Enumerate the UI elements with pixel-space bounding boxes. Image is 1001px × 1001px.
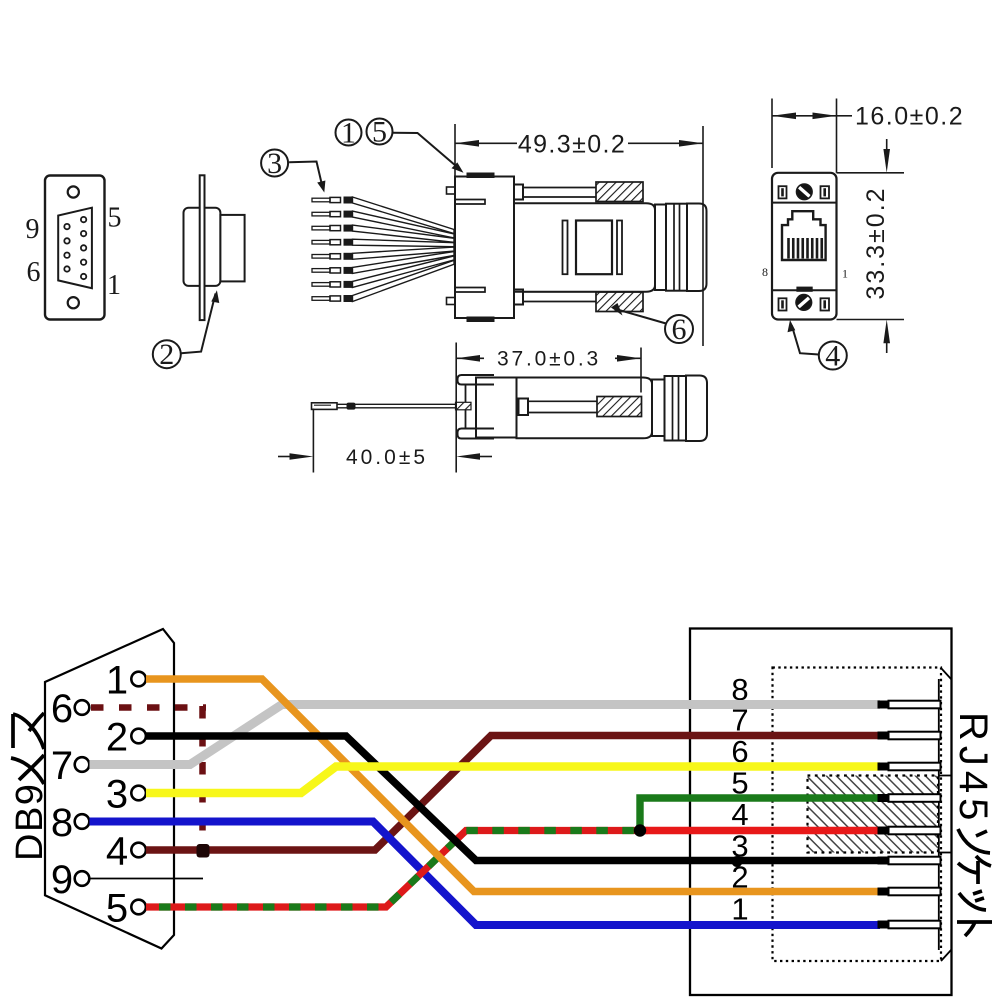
RJ45 contact row 6 (878, 763, 941, 771)
svg-text:49.3±0.2: 49.3±0.2 (518, 131, 626, 159)
shell black bar bottom (467, 317, 495, 323)
wire DB9-3 to RJ45-6 yellow (146, 767, 880, 794)
DB9 side view shell (184, 208, 221, 286)
strain relief ridge lines lower (673, 376, 679, 440)
svg-text:2: 2 (106, 716, 128, 760)
svg-text:9: 9 (26, 214, 40, 245)
dim 37.0 (456, 343, 641, 473)
svg-text:5: 5 (372, 116, 387, 149)
shell slot top (455, 200, 485, 205)
crimp pin row 8 (312, 260, 454, 302)
lower section view (458, 375, 708, 441)
balloon 2 (153, 294, 216, 369)
DB9 pin numbers (51, 659, 128, 931)
pin6 jumper dashed wire (91, 706, 206, 845)
RJ45 right inner vertical (938, 679, 940, 950)
wire DB9-5 striped green overlay (146, 831, 640, 908)
balloon 4 (819, 342, 847, 370)
wire green branch to RJ45-5 (640, 798, 884, 834)
balloon 5 (367, 119, 393, 145)
shell rect (455, 177, 514, 319)
balloon 6 leader (616, 309, 667, 324)
DB9 pins 6-9 column (64, 224, 69, 272)
wire red to RJ45-4 (640, 827, 880, 835)
junction dot red green (634, 824, 646, 836)
svg-text:6: 6 (672, 313, 687, 346)
RJ45 jack opening (782, 211, 826, 260)
RJ45 right bevel bottom (941, 950, 952, 962)
RJ45 socket rect (690, 629, 952, 996)
junction dot on black wire (732, 856, 743, 867)
DB9 side view flange plate (200, 175, 205, 320)
screw shaft top (523, 188, 596, 198)
WIRING-DIAGRAM (9, 629, 995, 996)
screw boss top (514, 185, 523, 200)
svg-text:5: 5 (108, 203, 122, 234)
strain relief band 1 (655, 205, 666, 291)
RJ45 contact row 5 (878, 794, 941, 802)
svg-text:16.0±0.2: 16.0±0.2 (855, 103, 964, 131)
wire DB9-4 to RJ45-7 maroon (146, 736, 880, 851)
balloon 4 leader (792, 326, 819, 355)
svg-text:1: 1 (842, 267, 848, 281)
band separator top (772, 202, 837, 204)
svg-text:9: 9 (51, 858, 73, 902)
dim 33.3 pointer down (886, 139, 888, 162)
housing label recess square (576, 221, 612, 275)
balloon 3 (261, 150, 323, 189)
RJ45 contact row 8 (878, 701, 941, 709)
wire DB9-8 to RJ45-1 blue (90, 822, 881, 926)
band separator bottom (772, 289, 837, 291)
svg-text:4: 4 (106, 830, 128, 874)
crimp pin row 4 (312, 239, 454, 247)
strain relief band 2 (666, 204, 687, 291)
flange tab bottom (458, 429, 495, 439)
screw thread hatched top (596, 182, 643, 202)
RJ45 front view (772, 173, 837, 320)
dim 49.3 (455, 124, 703, 346)
RJ45 socket label text (951, 712, 995, 936)
dim 33.3 top line (837, 172, 905, 174)
crimp stop dot (347, 403, 356, 410)
dim 33.3 bottom line (837, 319, 905, 321)
contact rod shaft (528, 401, 597, 412)
DB9 pins 1-5 column (81, 217, 86, 279)
svg-text:5: 5 (106, 887, 128, 931)
jack screw tip bottom (447, 298, 456, 305)
lead wire lower (337, 404, 456, 408)
wire DB9-1 to RJ45-2 orange (146, 679, 880, 892)
svg-text:2: 2 (159, 338, 174, 371)
contact rod thread hatched (597, 397, 642, 417)
svg-text:1: 1 (341, 117, 356, 150)
RJ45 right bevel top (941, 668, 952, 680)
RJ45 face body (772, 173, 837, 320)
strain relief end cap lower (686, 376, 707, 442)
DB9 D-sub opening (58, 208, 92, 289)
jack screw tip top (447, 187, 456, 194)
svg-text:37.0±0.3: 37.0±0.3 (497, 348, 601, 371)
strain relief band 2 lower (665, 376, 687, 441)
svg-text:8: 8 (51, 801, 73, 845)
jumper junction dot on pin4 wire (197, 844, 210, 858)
svg-text:40.0±5: 40.0±5 (346, 446, 428, 469)
wire DB9-7 to RJ45-8 gray (90, 705, 881, 765)
contact rod boss (519, 399, 529, 416)
housing body (514, 203, 655, 291)
RJ45 contact row 2 (878, 888, 941, 896)
flange plate (466, 385, 477, 429)
strain relief band 1 lower (652, 380, 665, 437)
DB9 front view shell (45, 176, 105, 320)
bottom band square right (821, 298, 830, 310)
balloon 6 (665, 315, 693, 343)
crimp pin row 7 (312, 256, 454, 288)
shielded pins hatch box (808, 776, 939, 853)
DB9 side view rear block (220, 215, 244, 282)
dim 40.0 (312, 409, 314, 473)
screw boss bottom (514, 290, 523, 305)
screw shaft bottom (523, 292, 596, 302)
shell black bar top (467, 173, 495, 179)
pin9 stub wire (90, 878, 204, 880)
svg-text:33.3±0.2: 33.3±0.2 (862, 186, 890, 299)
dim 33.3 pointer up (886, 330, 888, 353)
flange tab top (458, 375, 495, 385)
crimp pin row 1 (312, 197, 454, 234)
DB9 front labels 9 5 6 1 (26, 203, 122, 302)
recess bar right (617, 221, 622, 275)
crimp pin row 5 (312, 247, 454, 260)
svg-text:1: 1 (107, 270, 121, 301)
DB9 female trapezoid body (45, 629, 174, 949)
RJ45 right divider lower (938, 852, 952, 854)
top band square right (821, 186, 830, 198)
svg-text:3: 3 (267, 147, 282, 180)
RJ45 contact row 4 (878, 827, 941, 835)
svg-text:DB9: DB9 (9, 783, 51, 861)
strain relief ridge lines (674, 204, 680, 291)
svg-text:6: 6 (27, 257, 41, 288)
svg-text:7: 7 (51, 744, 73, 788)
screw thread hatched bottom (596, 292, 643, 312)
RJ45 contact row 3 (878, 857, 941, 865)
svg-text:4: 4 (825, 340, 840, 373)
crimp terminal lower (312, 403, 338, 410)
RJ45 contact row 7 (878, 732, 941, 740)
wire entry hatched (456, 402, 472, 410)
RJ45 inner dotted rect (773, 668, 942, 962)
assembly top view (447, 177, 707, 319)
recess bar left (563, 221, 568, 275)
crimp pin row 3 (312, 225, 454, 243)
RJ45 jack pins (787, 238, 823, 259)
svg-text:RJ45: RJ45 (951, 712, 995, 825)
svg-text:6: 6 (51, 687, 73, 731)
DB9 mounting hole top (68, 186, 79, 197)
shell slot bottom (455, 288, 485, 293)
RJ45 right divider upper (938, 775, 952, 777)
dim 16.0 (772, 99, 852, 173)
RJ45 pin numbers (731, 672, 748, 927)
latch slot black (796, 287, 812, 292)
balloon 1/5 leader (393, 133, 460, 169)
DB9 pin circles (75, 672, 146, 915)
svg-text:3: 3 (106, 773, 128, 817)
wire DB9-2 to RJ45-3 black (146, 736, 880, 861)
balloon 1 (336, 120, 362, 146)
DB9 female label text (9, 713, 51, 861)
wire DB9-5 striped red base (146, 831, 648, 908)
shell side (476, 378, 517, 438)
DB9 mounting hole bottom (68, 297, 79, 308)
crimp pin row 6 (312, 252, 454, 274)
crimp pin row 2 (312, 211, 454, 238)
RJ45 contact row 1 (878, 921, 941, 929)
housing body side (517, 378, 653, 439)
TOP-DRAWING (45, 176, 105, 320)
strain relief end cap (687, 204, 707, 292)
top band square left (779, 186, 787, 198)
bottom band square left (779, 298, 787, 310)
svg-text:1: 1 (106, 659, 128, 703)
svg-text:8: 8 (762, 265, 768, 279)
